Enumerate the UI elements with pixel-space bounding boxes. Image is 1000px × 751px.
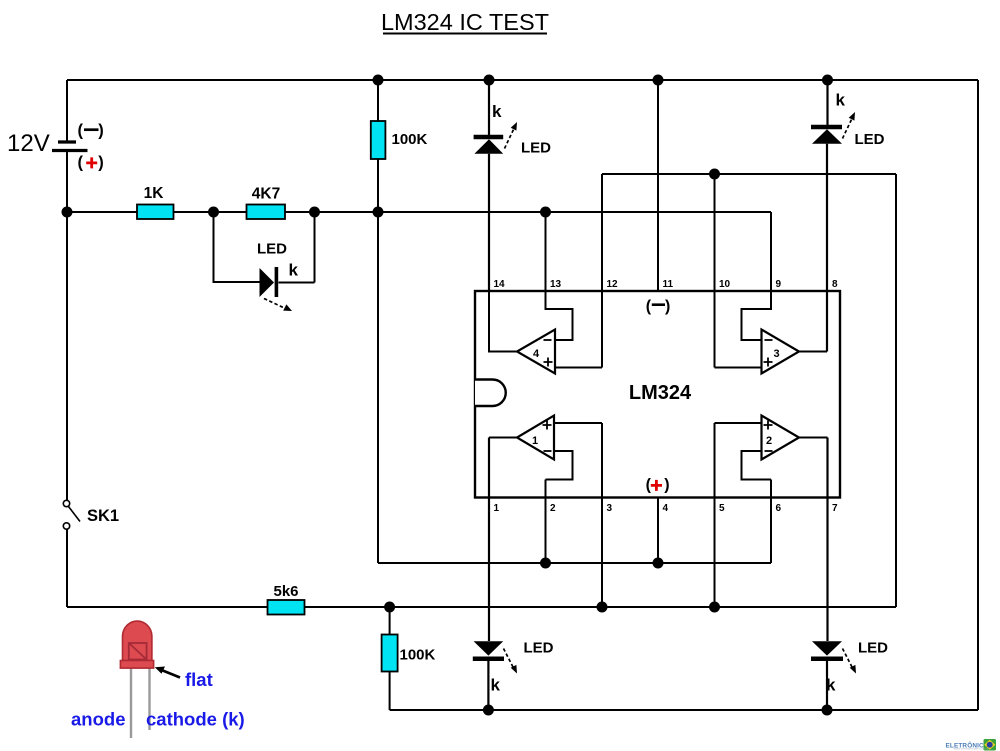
IC U1 LM324 body bbox=[475, 291, 840, 498]
svg-text:4: 4 bbox=[533, 348, 540, 360]
svg-text:(: ( bbox=[78, 122, 84, 140]
node y212 x213.5 bbox=[208, 207, 219, 218]
LED D4 (bottom-left) bbox=[473, 438, 554, 711]
LED D1 (across 4K7) bbox=[214, 212, 315, 311]
resistor R3 100K (top) bbox=[371, 121, 428, 159]
resistor R4 5k6 bbox=[268, 583, 305, 615]
node y710 x489 bbox=[483, 705, 494, 716]
svg-text:100K: 100K bbox=[400, 647, 436, 664]
svg-text:3: 3 bbox=[607, 503, 613, 514]
svg-text:(: ( bbox=[646, 477, 652, 494]
wire y=174 (pins 10,12) bbox=[602, 173, 896, 175]
node top rail x658 bbox=[653, 75, 664, 86]
resistor R2 4K7 bbox=[247, 186, 286, 220]
svg-text:): ) bbox=[98, 154, 104, 172]
svg-text:12: 12 bbox=[607, 279, 619, 290]
IC notch bbox=[475, 380, 506, 407]
svg-text:3: 3 bbox=[774, 348, 780, 360]
svg-text:LED: LED bbox=[524, 640, 554, 657]
svg-text:12V: 12V bbox=[7, 130, 50, 157]
wire y=563 bbox=[378, 562, 771, 564]
wire top rail bbox=[67, 79, 978, 81]
svg-text:cathode (k): cathode (k) bbox=[146, 709, 245, 730]
svg-text:flat: flat bbox=[185, 669, 213, 690]
title LM324 IC TEST bbox=[381, 9, 549, 35]
node y212 x314.5 bbox=[309, 207, 320, 218]
svg-text:100K: 100K bbox=[392, 131, 428, 148]
node y212 x378 bbox=[373, 207, 384, 218]
svg-text:LED: LED bbox=[855, 131, 885, 148]
op-amp U1a (1) bbox=[489, 416, 602, 608]
svg-text:9: 9 bbox=[776, 279, 782, 290]
LED D3 (top-right) bbox=[811, 80, 885, 352]
wire main y=212 bbox=[67, 211, 771, 213]
svg-text:(: ( bbox=[78, 154, 84, 172]
op-amp U1c (3) bbox=[715, 291, 828, 374]
wire x=378 vertical bbox=[377, 80, 379, 563]
pin 9 wire bbox=[770, 212, 772, 291]
svg-text:1: 1 bbox=[494, 503, 500, 514]
svg-text:SK1: SK1 bbox=[87, 507, 119, 525]
wire bottom rail y=607 bbox=[67, 606, 896, 608]
wire inner right vertical x=896 bbox=[895, 174, 897, 607]
LED D2 (top-left) bbox=[474, 80, 552, 291]
svg-text:5k6: 5k6 bbox=[273, 583, 298, 600]
node y174 x714.5 bbox=[709, 169, 720, 180]
wire right edge bbox=[977, 80, 979, 710]
node top rail x489 bbox=[484, 75, 495, 86]
node y710 x827.5 bbox=[822, 705, 833, 716]
svg-text:8: 8 bbox=[832, 279, 838, 290]
battery B1 12V bbox=[7, 122, 104, 172]
svg-text:4: 4 bbox=[663, 503, 669, 514]
pin 10 wire bbox=[714, 174, 716, 368]
svg-text:LED: LED bbox=[521, 140, 551, 157]
svg-text:10: 10 bbox=[719, 279, 731, 290]
node y563 x658 bbox=[653, 558, 664, 569]
svg-text:2: 2 bbox=[766, 435, 772, 447]
svg-text:LED: LED bbox=[257, 241, 287, 258]
svg-text:13: 13 bbox=[550, 279, 562, 290]
svg-text:anode: anode bbox=[71, 709, 125, 730]
resistor R5 100K (bottom) bbox=[382, 607, 436, 710]
svg-text:LM324: LM324 bbox=[629, 382, 692, 404]
svg-text:www.eletronicabr.com.br: www.eletronicabr.com.br bbox=[954, 747, 990, 751]
svg-text:k: k bbox=[491, 676, 501, 695]
wire switch to bottom bbox=[66, 529, 68, 607]
svg-text:): ) bbox=[664, 477, 669, 494]
node y212 x67 bbox=[62, 207, 73, 218]
svg-text:6: 6 bbox=[776, 503, 782, 514]
svg-text:5: 5 bbox=[719, 503, 725, 514]
wire bottom-right rail y=710 bbox=[390, 709, 978, 711]
svg-text:1K: 1K bbox=[144, 185, 165, 202]
svg-text:(: ( bbox=[646, 298, 652, 315]
node y563 x545.5 bbox=[540, 558, 551, 569]
pin 12 wire bbox=[601, 174, 603, 368]
pin 11 wire bbox=[657, 80, 659, 291]
node top rail x827.5 bbox=[822, 75, 833, 86]
op-amp U1b (2) bbox=[715, 416, 828, 608]
svg-text:2: 2 bbox=[550, 503, 556, 514]
wire left edge battery top bbox=[66, 80, 68, 142]
LED D5 (bottom-right) bbox=[811, 438, 888, 711]
pin 4 wire bbox=[657, 498, 659, 564]
node y607 x389.6 bbox=[384, 602, 395, 613]
svg-text:14: 14 bbox=[494, 279, 506, 290]
switch SK1 bbox=[63, 500, 119, 529]
LED pictorial (red LED drawing) bbox=[71, 621, 245, 738]
op-amp U1d (4) bbox=[489, 291, 602, 374]
svg-text:4K7: 4K7 bbox=[252, 186, 280, 203]
svg-text:7: 7 bbox=[832, 503, 838, 514]
svg-text:k: k bbox=[289, 261, 299, 280]
pin 13 wire bbox=[545, 212, 547, 291]
svg-text:k: k bbox=[826, 676, 836, 695]
svg-text:): ) bbox=[665, 298, 670, 315]
svg-text:k: k bbox=[836, 91, 846, 110]
svg-text:k: k bbox=[492, 102, 502, 121]
node y607 x714.5 bbox=[709, 602, 720, 613]
node top rail x378 bbox=[373, 75, 384, 86]
svg-text:1: 1 bbox=[532, 435, 538, 447]
wire battery to switch bbox=[66, 150, 68, 500]
svg-text:11: 11 bbox=[663, 279, 674, 290]
svg-text:): ) bbox=[98, 122, 104, 140]
watermark logo bbox=[946, 739, 997, 751]
svg-text:LED: LED bbox=[858, 640, 888, 657]
node y212 x545.5 bbox=[540, 207, 551, 218]
node y607 x602 bbox=[597, 602, 608, 613]
resistor R1 1K bbox=[137, 185, 174, 219]
svg-text:LM324 IC TEST: LM324 IC TEST bbox=[381, 9, 549, 35]
